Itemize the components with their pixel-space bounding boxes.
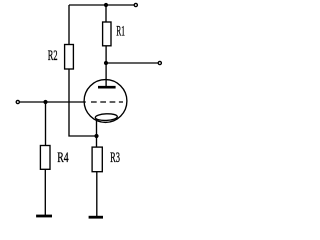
tube cathode ellipse	[95, 113, 117, 121]
node junction grid / R4	[43, 100, 47, 104]
resistor R1	[103, 22, 125, 46]
wire R4 bottom to ground	[44, 169, 46, 215]
wire top rail	[69, 4, 134, 6]
terminal input left	[16, 100, 19, 103]
tube grid dashed line	[91, 101, 123, 103]
terminal output right	[158, 61, 161, 64]
ground under R3	[89, 216, 103, 219]
resistor R4	[40, 146, 69, 170]
terminal top right	[134, 3, 137, 6]
tube envelope	[84, 80, 127, 123]
node junction cathode / R2 / R3	[94, 134, 98, 138]
triode tube V1	[84, 80, 127, 148]
ground under R4	[36, 215, 52, 218]
node junction anode / output	[104, 61, 108, 65]
wire R1 top lead	[105, 5, 107, 22]
svg-text:R2: R2	[48, 48, 58, 64]
wire grid row	[20, 101, 86, 103]
resistor R3	[92, 147, 120, 172]
node junction top rail / R1	[104, 3, 108, 7]
wire R3 bottom to ground	[96, 172, 98, 217]
svg-text:R4: R4	[57, 150, 69, 166]
wire R2 bottom elbow to cathode node	[69, 69, 97, 136]
wire grid junction down to R4	[45, 102, 47, 146]
wire anode output	[106, 62, 158, 64]
wire cathode lead	[96, 119, 98, 147]
wire R2 top lead	[68, 5, 70, 45]
tube anode plate bar	[98, 86, 116, 89]
wire R1 bottom to plate	[105, 46, 107, 87]
svg-text:R3: R3	[110, 150, 120, 166]
resistor R2	[48, 45, 74, 70]
svg-text:R1: R1	[116, 24, 125, 40]
